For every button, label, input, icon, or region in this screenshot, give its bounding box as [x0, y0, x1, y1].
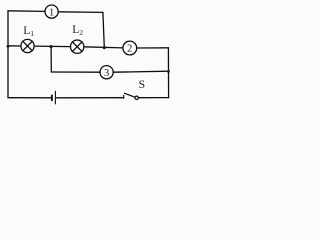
- wire row2 between L2 and ammeter 2: [84, 47, 123, 48]
- lamp L1 circle: [21, 39, 34, 52]
- svg-text:3: 3: [104, 68, 109, 79]
- switch lever: [125, 93, 136, 97]
- wire bottom right of switch: [139, 97, 169, 99]
- junction node row3/right wire: [167, 70, 170, 73]
- wire row2 between L1 and L2: [34, 45, 71, 48]
- battery positive plate (long thin): [54, 91, 56, 104]
- lamp L2 cross: [72, 42, 81, 51]
- wire bottom between battery and switch: [56, 97, 123, 99]
- wire top branch vertical drop: [103, 12, 104, 47]
- wire row3 right of ammeter 3: [113, 71, 168, 72]
- wire row2 from left wire to lamp L1: [8, 45, 21, 47]
- switch terminal tick: [123, 95, 125, 98]
- wire row2 right of ammeter 2 to right wire: [137, 47, 169, 49]
- svg-text:1: 1: [49, 7, 54, 18]
- wire right vertical: [167, 48, 169, 98]
- battery negative plate (short thick): [51, 95, 53, 100]
- ammeter meter 2: [123, 41, 137, 55]
- wire top row left of ammeter 1: [8, 10, 45, 13]
- svg-text:2: 2: [127, 44, 132, 55]
- junction node row2/top branch: [103, 46, 106, 49]
- wire row3 left of ammeter 3: [51, 71, 100, 73]
- ammeter meter 1: [45, 5, 58, 18]
- ammeter meter 3: [100, 66, 113, 79]
- switch pivot circle: [135, 96, 138, 99]
- wire branch vertical to row3: [50, 47, 52, 72]
- lamp L1 cross: [23, 41, 32, 50]
- wire left vertical: [7, 11, 9, 98]
- wire top row right of ammeter 1: [58, 11, 103, 14]
- junction node row2/branch: [50, 45, 53, 48]
- wire bottom left of battery: [8, 97, 51, 99]
- svg-text:S: S: [139, 77, 146, 91]
- lamp L2 circle: [71, 40, 84, 53]
- junction node left wire/row2: [7, 45, 10, 48]
